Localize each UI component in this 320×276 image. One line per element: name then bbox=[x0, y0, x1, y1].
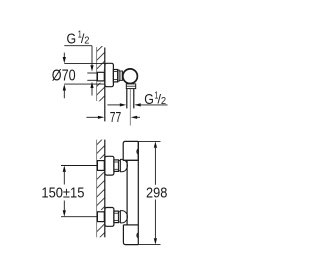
union nut 2 (front view) bbox=[114, 211, 119, 223]
concealed socket (side view) bbox=[97, 72, 104, 81]
label G1/2 (outlet) bbox=[144, 90, 166, 108]
escutcheon (side view) bbox=[105, 63, 114, 86]
outlet collar under circle bbox=[126, 84, 135, 89]
opposing arrow up to socket bottom bbox=[90, 82, 93, 88]
dimension 150±15 bbox=[41, 166, 97, 217]
concealed socket 2 (front view) bbox=[97, 212, 104, 222]
outlet centre line / 77 extension bbox=[129, 89, 131, 126]
label G1/2 (top) bbox=[67, 30, 90, 48]
safety button (bottom handle) bbox=[136, 232, 138, 238]
wall face line (front view) bbox=[104, 140, 106, 238]
arrow pointing right at pipe left wall bbox=[107, 104, 120, 106]
dimension 298 bbox=[138, 141, 167, 244]
right outside arrow bbox=[131, 116, 137, 119]
wall hatch (front view) bbox=[92, 132, 110, 246]
wall face line (side view), continues down as 77 extension bbox=[104, 48, 106, 122]
arrow pointing left at pipe right wall bbox=[134, 103, 140, 106]
svg-text:298: 298 bbox=[146, 184, 167, 201]
underline / arrow line of outlet G1/2 bbox=[139, 104, 168, 106]
wall back edge (front view) bbox=[96, 140, 98, 238]
check valve dome 1 bbox=[120, 159, 127, 171]
svg-text:150±15: 150±15 bbox=[41, 185, 84, 202]
escutcheon 1 (front view) bbox=[105, 156, 114, 175]
lower arrow pointing up bbox=[63, 84, 66, 90]
thermostat body: top handle bbox=[123, 141, 138, 160]
concealed socket 1 (front view) bbox=[97, 161, 104, 171]
valve body circle (side view) bbox=[123, 69, 138, 84]
dimension line with inside arrows bbox=[154, 141, 157, 147]
svg-text:77: 77 bbox=[110, 109, 121, 126]
outlet pipe walls bbox=[126, 89, 128, 109]
left outside arrow bbox=[86, 116, 98, 118]
upper arrow pointing down bbox=[63, 53, 65, 58]
leader arrow down to socket bbox=[91, 46, 93, 66]
leader underline of top G1/2 bbox=[64, 45, 92, 47]
escutcheon 2 (front view) bbox=[105, 208, 114, 227]
svg-text:2: 2 bbox=[84, 36, 89, 47]
dimension Ø70 bbox=[52, 53, 105, 99]
washer and ring (side view) bbox=[118, 70, 120, 81]
thermostat body: tube bbox=[126, 160, 128, 225]
union nut (side view) bbox=[113, 70, 117, 82]
wall back edge (side view) bbox=[96, 47, 98, 101]
wall hatch (side view) bbox=[92, 38, 110, 108]
washer 1 bbox=[119, 161, 121, 171]
extension lines bbox=[138, 140, 160, 142]
dimension 77 bbox=[86, 109, 140, 126]
bottom extension line bbox=[64, 83, 105, 85]
supply pipe stub behind wall bbox=[87, 72, 98, 74]
thermostat body: bottom handle bbox=[123, 224, 138, 226]
check valve dome 2 bbox=[120, 211, 127, 223]
svg-text:Ø70: Ø70 bbox=[52, 68, 76, 85]
safety button (top handle) bbox=[136, 149, 138, 155]
svg-text:G: G bbox=[67, 30, 77, 47]
clearance around socket bbox=[96, 70, 105, 82]
union nut 1 (front view) bbox=[114, 160, 119, 172]
washer 2 bbox=[119, 212, 121, 222]
extension lines bbox=[61, 165, 97, 167]
top extension line bbox=[64, 62, 105, 64]
clearance around sockets bbox=[96, 159, 105, 172]
dimension line with inside arrows bbox=[63, 166, 66, 172]
